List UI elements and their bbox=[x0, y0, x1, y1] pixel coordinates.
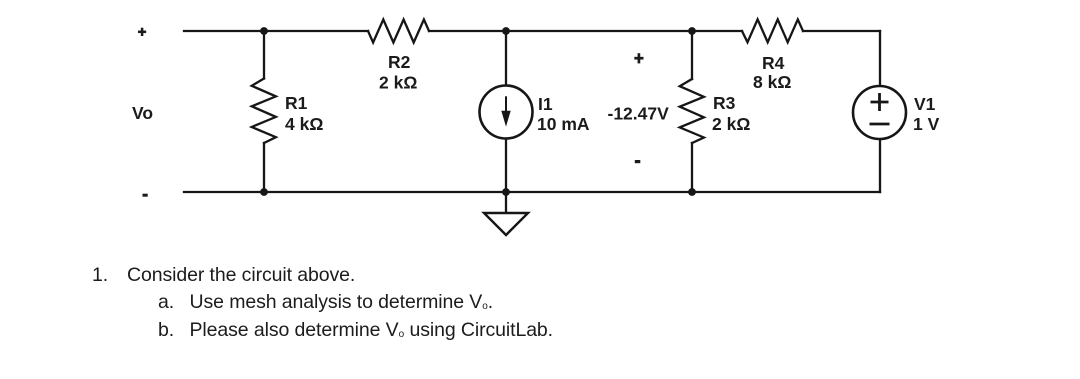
node dot top-middle bbox=[502, 27, 510, 35]
voltage source V1 minus sign bbox=[870, 123, 890, 126]
label plus R3 branch bbox=[634, 53, 643, 63]
wire bottom rail bbox=[184, 191, 880, 193]
resistor R4 bbox=[742, 19, 803, 42]
problem text line 2 letter bbox=[158, 293, 174, 313]
svg-text:Vo: Vo bbox=[132, 103, 153, 123]
current source I1 arrow bbox=[501, 96, 510, 126]
wire I1 branch bottom bbox=[505, 139, 507, 193]
svg-text:R2: R2 bbox=[388, 52, 411, 72]
svg-text:4 kΩ: 4 kΩ bbox=[285, 114, 323, 134]
node dot bottom-left bbox=[260, 188, 268, 196]
svg-text:2 kΩ: 2 kΩ bbox=[379, 73, 417, 93]
voltage source V1 circle bbox=[853, 86, 906, 139]
problem text line 1 number bbox=[92, 266, 108, 286]
node dot bottom-right bbox=[688, 188, 696, 196]
svg-text:R4: R4 bbox=[762, 53, 785, 73]
problem text line 2 bbox=[190, 293, 494, 317]
svg-text:R1: R1 bbox=[285, 93, 308, 113]
current source I1 circle bbox=[480, 86, 533, 139]
resistor R3 bbox=[680, 79, 704, 143]
svg-text:V1: V1 bbox=[914, 94, 936, 114]
svg-text:8 kΩ: 8 kΩ bbox=[753, 72, 791, 92]
wire top rail left segment bbox=[184, 30, 368, 32]
svg-text:I1: I1 bbox=[538, 94, 553, 114]
svg-text:2 kΩ: 2 kΩ bbox=[712, 114, 750, 134]
label plus left port bbox=[138, 28, 146, 36]
svg-text:1 V: 1 V bbox=[913, 114, 940, 134]
ground bbox=[484, 213, 528, 235]
voltage source V1 plus sign bbox=[871, 93, 889, 111]
problem text line 3 letter bbox=[158, 321, 174, 341]
wire R1 branch top bbox=[263, 31, 265, 79]
resistor R1 bbox=[252, 79, 276, 144]
problem text line 1 bbox=[127, 266, 355, 286]
node dot top-right bbox=[688, 27, 696, 35]
wire right branch upper bbox=[879, 31, 881, 86]
label minus left port bbox=[143, 194, 148, 197]
svg-text:-12.47V: -12.47V bbox=[608, 104, 670, 124]
node dot top-left bbox=[260, 27, 268, 35]
resistor R2 bbox=[368, 20, 429, 43]
wire right branch lower bbox=[879, 140, 881, 193]
wire top rail middle segment bbox=[429, 30, 742, 32]
svg-text:R3: R3 bbox=[713, 93, 736, 113]
svg-text:10 mA: 10 mA bbox=[537, 114, 590, 134]
wire R1 branch bottom bbox=[263, 143, 265, 192]
problem text line 3 bbox=[190, 321, 554, 345]
label minus R3 branch bbox=[635, 160, 641, 163]
wire I1 branch top bbox=[505, 31, 507, 86]
wire R3 branch top bbox=[691, 31, 693, 79]
node dot bottom-middle bbox=[502, 188, 510, 196]
wire R3 branch bottom bbox=[691, 143, 693, 192]
wire top rail right segment bbox=[803, 30, 880, 32]
wire ground stub bbox=[505, 192, 507, 213]
